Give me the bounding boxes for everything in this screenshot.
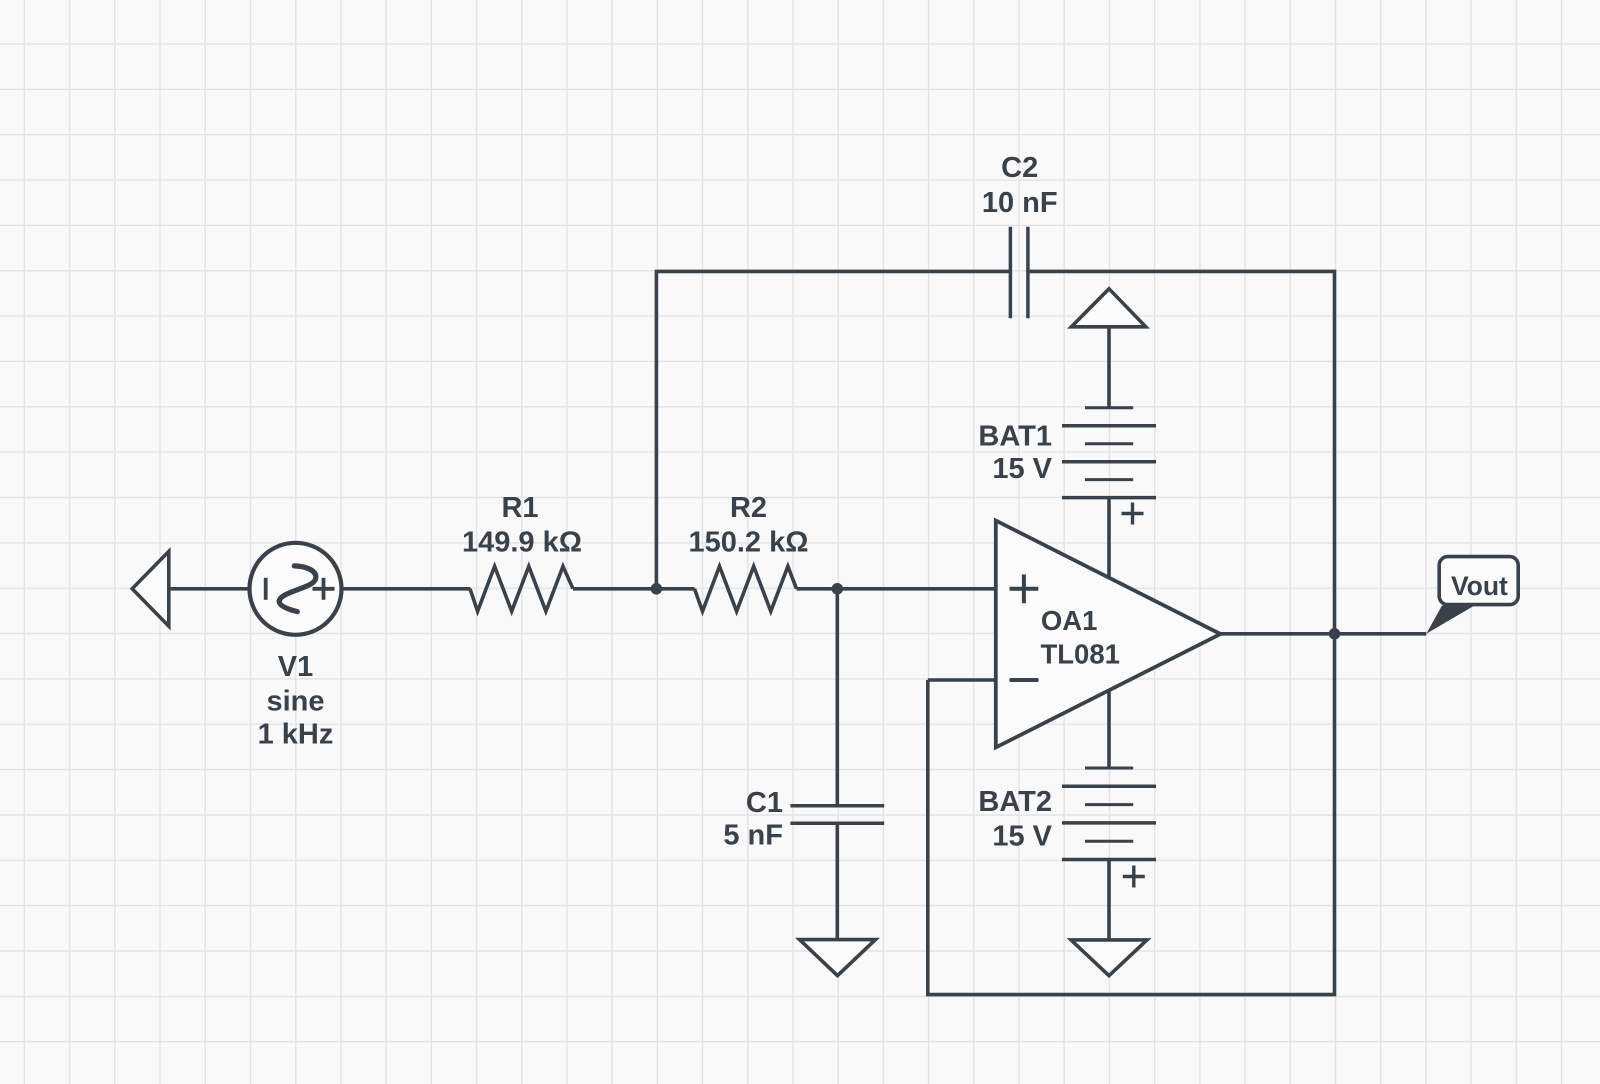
svg-text:R2: R2 — [730, 492, 767, 524]
output junction dot — [1329, 628, 1341, 640]
svg-text:10 nF: 10 nF — [982, 187, 1058, 219]
svg-text:R1: R1 — [501, 492, 538, 524]
wire: op-amp V+ supply pin — [1107, 498, 1111, 578]
svg-text:BAT2: BAT2 — [978, 786, 1052, 818]
svg-text:V1: V1 — [278, 651, 313, 683]
C2 value labels — [982, 152, 1058, 219]
svg-text:sine: sine — [266, 686, 324, 718]
battery BAT1 — [1062, 289, 1156, 525]
svg-text:149.9 kΩ: 149.9 kΩ — [462, 527, 582, 559]
wire: op-amp V- supply pin — [1107, 690, 1111, 768]
Vout net flag — [1426, 557, 1518, 634]
voltage source V1 — [250, 543, 342, 635]
svg-text:OA1: OA1 — [1041, 605, 1098, 636]
wire: port to V1 — [168, 587, 251, 591]
svg-text:TL081: TL081 — [1040, 639, 1119, 670]
V1 value labels — [258, 651, 334, 751]
svg-text:15 V: 15 V — [992, 820, 1052, 852]
svg-text:BAT1: BAT1 — [978, 421, 1052, 453]
ground (below C1) — [800, 940, 876, 976]
battery BAT2 — [1062, 768, 1156, 940]
capacitor C2 — [1010, 227, 1028, 319]
svg-text:150.2 kΩ: 150.2 kΩ — [688, 527, 808, 559]
svg-text:1 kHz: 1 kHz — [258, 719, 334, 751]
wire: C2 to output (feedback right) — [1028, 271, 1335, 633]
svg-text:C2: C2 — [1001, 152, 1038, 184]
resistor R2 — [695, 566, 797, 611]
svg-text:15 V: 15 V — [992, 453, 1052, 485]
R2 value labels — [688, 492, 808, 559]
C1 value labels — [723, 787, 783, 852]
op-amp OA1 TL081 — [996, 521, 1221, 748]
resistor R1 — [470, 566, 573, 611]
wire: R1 to R2 (through node A) — [573, 587, 695, 591]
BAT2 value labels — [978, 786, 1052, 853]
svg-text:C1: C1 — [746, 787, 783, 819]
node A junction dot — [651, 583, 663, 595]
wire: R2 to op-amp noninverting input (through node B) — [797, 587, 996, 591]
input port arrow — [132, 551, 169, 626]
wire: C1 to ground — [835, 823, 839, 939]
svg-text:5 nF: 5 nF — [723, 820, 783, 852]
BAT1 value labels — [978, 421, 1052, 486]
ground (below BAT2) — [1071, 940, 1147, 976]
wire: op-amp output to Vout — [1221, 632, 1427, 636]
wire: node A up to C2 (feedback left) — [656, 271, 1010, 588]
wire: V1 to R1 — [342, 587, 471, 591]
wire: node B down to C1 — [835, 589, 839, 806]
wire: feedback to inverting input — [928, 678, 996, 682]
wire: output down and around to inverting input — [928, 634, 1335, 995]
capacitor C1 — [790, 806, 884, 823]
R1 value labels — [462, 492, 582, 559]
svg-text:Vout: Vout — [1451, 571, 1508, 601]
node B junction dot — [832, 583, 844, 595]
